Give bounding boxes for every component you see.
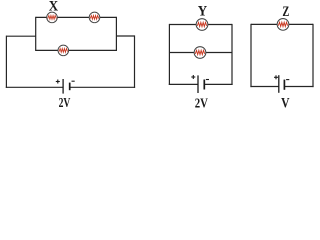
wire: X inner loop left vertical (35, 17, 37, 51)
wire: Y top branch (169, 24, 232, 26)
label X (49, 0, 59, 15)
label Z (282, 4, 289, 20)
battery B1 minus sign (72, 80, 75, 82)
wire: Y right vertical (231, 24, 233, 85)
lamp X1 (labelled X) (47, 12, 58, 23)
battery B2 positive long plate (197, 75, 199, 93)
wire: X inner loop bottom branch (36, 49, 117, 51)
wire: X inner loop top branch (36, 16, 117, 18)
battery B3 value label V (281, 96, 290, 112)
wire: X outer right vertical (134, 35, 136, 88)
battery B2 plus sign (191, 75, 195, 79)
battery B3 negative short plate (283, 80, 285, 90)
wire: X bottom left segment (6, 86, 63, 88)
svg-text:2V: 2V (59, 96, 71, 111)
label Y (198, 3, 208, 19)
lamp Z1 (labelled Z) (277, 19, 289, 31)
wire: Z bottom left segment (250, 86, 278, 88)
wire: X inner loop right vertical (115, 17, 117, 51)
wire: X right tap (116, 35, 134, 37)
wire: Y bottom left segment (169, 83, 198, 85)
wire: Y middle branch (169, 52, 232, 54)
wire: Y left vertical (168, 24, 170, 85)
battery B3 plus sign (274, 75, 278, 79)
svg-text:2V: 2V (195, 96, 208, 111)
svg-text:Z: Z (282, 4, 289, 20)
battery B1 plus sign (56, 80, 60, 84)
wire: X left tap (6, 35, 35, 37)
wire: Y bottom right segment (204, 83, 232, 85)
lamp X2 (series with X1) (89, 12, 100, 23)
lamp Y2 (parallel branch) (194, 47, 206, 59)
lamp Y1 (labelled Y) (196, 19, 208, 31)
battery B2 minus sign (206, 79, 209, 81)
battery B3 positive long plate (278, 75, 280, 93)
lamp X3 (parallel branch) (58, 45, 69, 56)
battery B1 positive long plate (62, 79, 64, 94)
battery B2 value label 2V (195, 96, 208, 111)
wire: Z right vertical (312, 24, 314, 87)
battery B1 negative short plate (69, 83, 71, 91)
wire: X bottom right segment (70, 86, 135, 88)
svg-text:V: V (281, 96, 290, 111)
wire: Z left vertical (250, 24, 252, 87)
wire: X outer left vertical (5, 36, 7, 88)
wire: Z top branch (251, 23, 313, 25)
wire: Z bottom right segment (284, 86, 313, 88)
svg-text:Y: Y (198, 3, 208, 19)
battery B3 minus sign (286, 79, 289, 81)
battery B1 value label 2V (59, 96, 71, 111)
battery B2 negative short plate (203, 80, 205, 90)
